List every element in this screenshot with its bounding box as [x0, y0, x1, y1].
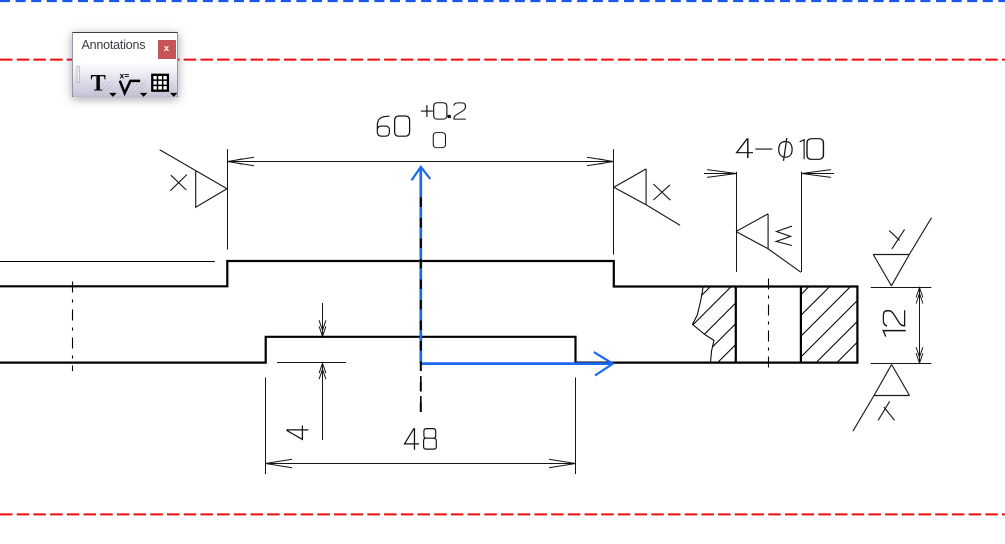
- dimension 4 arrow upper: [319, 320, 326, 336]
- toolbar title: [82, 38, 146, 52]
- dimension 4-phi10 extension line right: [801, 172, 803, 272]
- red dashed guide line bottom: [0, 513, 1005, 515]
- dimension text 48: [404, 428, 436, 450]
- dimension 60 extension line right: [613, 149, 615, 255]
- dimension 48 extension line left: [265, 378, 267, 475]
- hole edge right: [800, 287, 802, 363]
- hatching right section: [733, 286, 934, 363]
- axis Y blue arrow: [412, 167, 431, 364]
- formula tool ghost: [124, 80, 149, 95]
- dimension text 4-phi10: [737, 138, 824, 161]
- dimension 12 arrow bottom: [916, 347, 923, 363]
- centerline dash overlay on Y axis: [420, 198, 422, 413]
- tangent edge thin line top left: [0, 261, 215, 263]
- tolerance text +0.2: [421, 103, 466, 119]
- part outline main profile: [0, 261, 857, 363]
- dimension 12 arrow top: [916, 288, 923, 304]
- red dashed guide line upper: [0, 59, 1005, 61]
- dimension 4 line lower: [322, 363, 324, 440]
- table tool icon: [152, 74, 168, 90]
- dimension 12 extension line bottom: [871, 363, 932, 365]
- toolbar grip: [77, 66, 79, 82]
- hole edge left: [735, 287, 737, 363]
- surface finish symbol bottom right (y): [853, 365, 910, 432]
- dropdown arrow 1: [109, 92, 116, 96]
- dimension 4-phi10 line left segment: [704, 173, 737, 175]
- dimension 4-phi10 extension line left: [736, 172, 738, 272]
- toolbar close button: [158, 40, 176, 59]
- toolbar icon row: [73, 64, 177, 97]
- dimension text 4 rotated: [286, 426, 308, 440]
- svg-text:x=: x=: [119, 70, 129, 80]
- dimension 4-phi10 arrow right: [802, 170, 832, 178]
- surface finish symbol top right (y): [873, 218, 931, 286]
- dimension 60 line: [228, 161, 614, 163]
- hatching left section: [634, 286, 794, 363]
- dimension 60 extension line left: [227, 149, 229, 249]
- dimension 60 arrow right: [587, 157, 614, 165]
- blue dashed guide line top: [0, 0, 1005, 2]
- dropdown arrow 2: [139, 92, 146, 96]
- surface finish symbol left (x): [160, 150, 227, 208]
- surface finish symbol on hole (zigzag): [736, 214, 801, 272]
- centerline vertical axis of part: [420, 196, 422, 412]
- dimension 4 line upper: [322, 303, 324, 337]
- dimension 4-phi10 arrow left: [707, 170, 737, 178]
- svg-text:T: T: [90, 70, 105, 95]
- dimension 4 extension line: [277, 362, 346, 364]
- dimension 60 arrow left: [228, 157, 255, 165]
- dimension 4-phi10 line right segment: [802, 173, 835, 175]
- dropdown arrow 3: [170, 92, 177, 96]
- dimension 12 extension line top: [871, 287, 932, 289]
- centerline left hole: [72, 282, 74, 372]
- dimension text 12 rotated: [883, 310, 905, 336]
- table tool ghost: [155, 83, 176, 95]
- break line jagged boundary: [693, 287, 715, 363]
- dimension text 60: [377, 116, 409, 136]
- dimension 48 line: [266, 463, 576, 465]
- dimension 12 line: [919, 288, 921, 364]
- tolerance text 0 lower: [433, 133, 445, 148]
- text tool ghost: [90, 81, 114, 95]
- surface finish symbol right (x): [614, 169, 680, 226]
- axis X blue arrow: [421, 352, 613, 375]
- centerline right hole: [768, 279, 770, 372]
- dimension 48 arrow left: [266, 459, 293, 467]
- dimension 4 arrow lower: [319, 363, 326, 379]
- annotations toolbar: [72, 32, 178, 98]
- dimension 48 arrow right: [549, 459, 576, 467]
- dimension 48 extension line right: [575, 378, 577, 475]
